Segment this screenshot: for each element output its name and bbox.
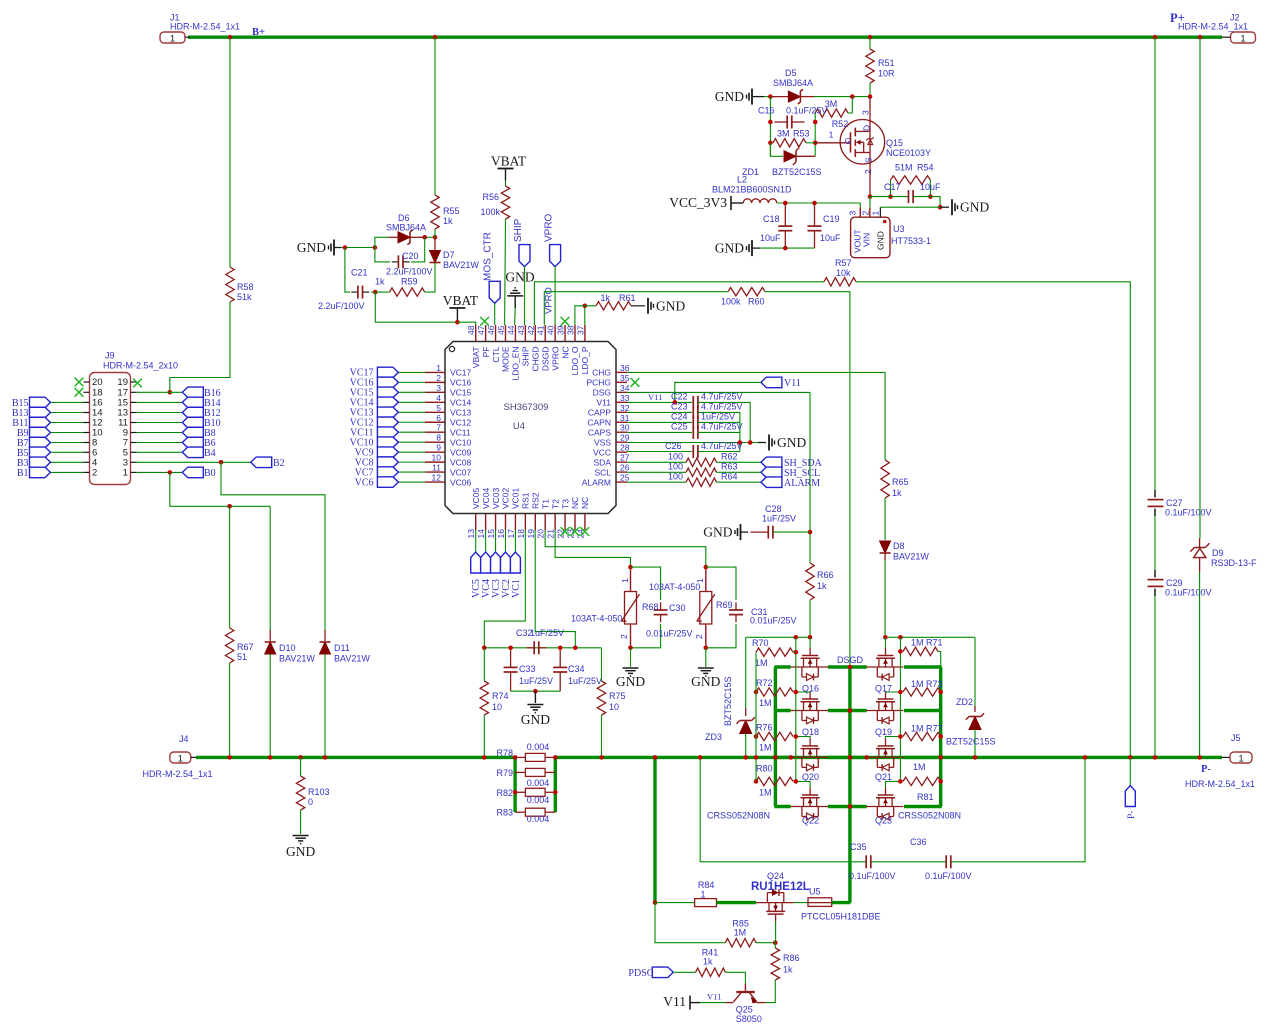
svg-text:PDSG: PDSG	[628, 968, 654, 979]
U4 pin 19 RS2	[534, 514, 536, 531]
transistor Q22	[809, 788, 811, 796]
svg-text:19: 19	[526, 529, 536, 539]
wire port B11 to J9	[51, 422, 84, 424]
wire R41 to Q25 base	[725, 972, 745, 983]
port B12	[182, 407, 203, 418]
svg-text:0.004: 0.004	[527, 814, 550, 824]
svg-text:29: 29	[620, 433, 630, 443]
svg-text:VC05: VC05	[471, 487, 481, 509]
ground at R61	[647, 298, 649, 314]
U4 pin 48 VBAT	[475, 325, 477, 342]
J9 pin 14 (left)	[84, 412, 90, 414]
svg-text:32: 32	[620, 403, 630, 413]
svg-text:G: G	[845, 136, 852, 146]
wire CHG pin36 to R65	[627, 372, 885, 460]
wire R66 to DSG gate line	[809, 600, 811, 637]
transistor Q17	[885, 648, 887, 656]
wire port VC16 to U4	[398, 381, 425, 383]
svg-text:VCC: VCC	[593, 447, 611, 457]
wire port VC17 to U4	[398, 371, 425, 373]
svg-text:7: 7	[436, 423, 441, 433]
svg-text:HT7533-1: HT7533-1	[891, 236, 931, 246]
wire D8 to CHG gate line	[884, 560, 886, 637]
svg-text:1k: 1k	[783, 965, 793, 975]
svg-text:44: 44	[506, 325, 516, 335]
capacitor C29	[1154, 570, 1156, 577]
no-connect pin 22	[561, 527, 570, 536]
svg-text:V11: V11	[663, 994, 686, 1009]
port MOS_CTR	[489, 281, 500, 303]
svg-text:PF: PF	[481, 347, 491, 358]
wire B+ to R58	[229, 37, 231, 267]
svg-text:1k: 1k	[703, 957, 713, 967]
svg-text:CRSS052N08N: CRSS052N08N	[898, 811, 961, 821]
svg-text:D7: D7	[443, 250, 455, 260]
U4 pin 43 SHIP	[524, 325, 526, 342]
left 1M common vertical to rail	[755, 652, 757, 781]
port B15	[30, 397, 51, 408]
U4 pin 30 CAPS	[616, 431, 627, 433]
wire J9 to port B8	[137, 432, 183, 434]
svg-text:1uF/25V: 1uF/25V	[568, 676, 602, 686]
svg-text:Q24: Q24	[767, 871, 784, 881]
svg-text:1: 1	[178, 753, 183, 764]
svg-text:1k: 1k	[600, 293, 610, 303]
svg-text:GND: GND	[505, 270, 534, 285]
wire B0 node down to R67	[229, 506, 231, 628]
no-connect pin 23	[571, 527, 580, 536]
connector J4	[170, 752, 191, 763]
svg-text:4.7uF/25V: 4.7uF/25V	[701, 422, 743, 432]
connector J2	[1231, 32, 1256, 43]
resistor R86 1k	[771, 948, 779, 980]
svg-text:12: 12	[432, 473, 442, 483]
svg-text:1M: 1M	[759, 743, 772, 753]
ground below C33 C34	[527, 704, 543, 706]
svg-text:R67: R67	[237, 642, 254, 652]
svg-text:2.2uF/100V: 2.2uF/100V	[386, 267, 433, 277]
svg-text:J5: J5	[1231, 733, 1241, 743]
svg-text:Q15: Q15	[886, 138, 903, 148]
port B3	[30, 457, 51, 468]
svg-text:37: 37	[575, 325, 585, 335]
svg-text:BZT52C15S: BZT52C15S	[946, 737, 996, 747]
U4 pin 36 CHG	[616, 371, 627, 373]
port ALARM	[761, 477, 782, 488]
svg-text:10: 10	[492, 702, 502, 712]
svg-text:VC10: VC10	[450, 437, 472, 447]
svg-text:R69: R69	[716, 600, 733, 610]
svg-text:15: 15	[486, 529, 496, 539]
svg-text:U3: U3	[893, 224, 905, 234]
port B0	[182, 467, 203, 478]
svg-text:R64: R64	[721, 472, 738, 482]
svg-text:11: 11	[432, 463, 441, 473]
svg-text:35: 35	[620, 373, 630, 383]
wire R58 to J9 pin17	[170, 302, 230, 392]
no-connect J9 pin 20	[75, 378, 84, 387]
svg-text:R75: R75	[609, 691, 626, 701]
svg-text:VC01: VC01	[511, 487, 521, 509]
svg-text:R73: R73	[926, 679, 943, 689]
wire RS2 pin19 to sense right	[535, 530, 575, 648]
J9 pin 9 (right)	[131, 432, 137, 434]
svg-text:D11: D11	[334, 643, 350, 653]
svg-text:SH367309: SH367309	[504, 402, 549, 413]
wire R85 to gate node	[756, 942, 775, 944]
wire right vertical	[814, 113, 816, 156]
left gate line DSG	[746, 636, 810, 638]
svg-text:10: 10	[432, 453, 442, 463]
svg-text:T2: T2	[550, 499, 560, 509]
svg-text:DSG: DSG	[593, 388, 611, 398]
diode D11 BAV21W	[324, 630, 326, 641]
svg-text:GND: GND	[960, 200, 989, 215]
svg-text:1M: 1M	[911, 724, 924, 734]
svg-text:R68: R68	[642, 602, 659, 612]
svg-text:21: 21	[546, 529, 556, 539]
svg-text:R76: R76	[756, 723, 773, 733]
port SH_SCL	[761, 467, 782, 478]
svg-text:0.1uF/100V: 0.1uF/100V	[1165, 508, 1212, 518]
svg-text:1M: 1M	[755, 658, 768, 668]
svg-text:2: 2	[860, 211, 870, 216]
wire port B5 to J9	[51, 451, 84, 453]
svg-text:R56: R56	[482, 192, 499, 202]
svg-text:MODE: MODE	[501, 346, 511, 372]
svg-text:BAV21W: BAV21W	[334, 654, 370, 664]
svg-text:R66: R66	[817, 570, 834, 580]
wire U4 pin 15 to port VC3	[495, 530, 497, 552]
capacitor C35	[865, 855, 867, 868]
svg-text:CAPP: CAPP	[588, 407, 611, 417]
U4 pin 38 LDO_O	[574, 325, 576, 342]
resistor R76 1M	[756, 732, 793, 740]
capacitor C30	[631, 567, 661, 600]
transistor Q15 NCE0103Y	[840, 120, 885, 165]
svg-text:1M: 1M	[911, 679, 924, 689]
U4 pin 44 LDO_EN	[514, 325, 516, 342]
svg-text:R82: R82	[496, 788, 513, 798]
wire PDSG to R41	[673, 971, 695, 973]
U4 pin 15 VC03	[495, 514, 497, 531]
svg-text:SMBJ64A: SMBJ64A	[773, 78, 813, 88]
diode D5 SMBJ64A	[768, 94, 773, 99]
wire Q15 source to VIN	[869, 197, 871, 208]
svg-text:20: 20	[536, 529, 546, 539]
port B11	[30, 417, 51, 428]
svg-text:GND: GND	[876, 231, 886, 250]
U4 pin 29 VSS	[616, 441, 627, 443]
svg-text:GND: GND	[521, 712, 550, 727]
left source rail thick	[774, 667, 777, 807]
svg-text:S8050: S8050	[736, 1014, 762, 1024]
svg-text:1M: 1M	[734, 928, 747, 938]
port VC12	[377, 417, 398, 428]
fuse U5 PTCCL05H181DBE	[808, 898, 832, 907]
svg-text:Q23: Q23	[875, 816, 892, 826]
ground below R69	[704, 646, 709, 651]
svg-text:C19: C19	[823, 214, 840, 224]
port VC5	[471, 552, 481, 573]
svg-text:VC02: VC02	[501, 487, 511, 509]
no-connect pin 35	[631, 378, 640, 387]
capacitor C21	[351, 291, 357, 293]
U4 pin 6 VC12	[425, 421, 445, 423]
port VC4	[481, 552, 491, 573]
port VC9	[377, 447, 398, 458]
no-connect J9 pin 18	[75, 388, 84, 397]
svg-text:26: 26	[620, 463, 630, 473]
wire port VC12 to U4	[398, 421, 425, 423]
svg-text:V11: V11	[648, 392, 662, 402]
wire port VC7 to U4	[398, 471, 425, 473]
svg-text:SDA: SDA	[594, 457, 612, 467]
wire Q24 to U5	[794, 902, 808, 904]
wire left vertical D5 node	[769, 97, 771, 157]
wire B2 net down to D11	[221, 462, 325, 630]
wire port B13 to J9	[51, 412, 84, 414]
resistor R74	[483, 648, 485, 681]
wire port B15 to J9	[51, 401, 84, 403]
svg-text:P-: P-	[1127, 811, 1137, 819]
svg-text:VC12: VC12	[450, 417, 472, 427]
svg-text:PCHG: PCHG	[586, 378, 611, 388]
svg-text:10uF: 10uF	[920, 182, 941, 192]
svg-text:0.01uF/25V: 0.01uF/25V	[750, 616, 797, 626]
wire CHGD pin42 to R57	[534, 282, 824, 325]
svg-text:C17: C17	[884, 182, 901, 192]
svg-text:VC6: VC6	[355, 477, 374, 488]
wire VBAT to U4 pin 48	[457, 322, 475, 325]
svg-text:3M: 3M	[777, 129, 790, 139]
svg-text:D: D	[862, 125, 872, 131]
svg-text:D9: D9	[1212, 548, 1224, 558]
svg-text:R103: R103	[308, 787, 330, 797]
wire R64 to port ALARM	[717, 481, 761, 483]
svg-text:1M: 1M	[911, 638, 924, 648]
svg-text:39: 39	[556, 325, 566, 335]
svg-text:Q20: Q20	[802, 772, 819, 782]
wire R63 to port SH_SCL	[717, 471, 761, 473]
wire C36 up to bus	[951, 757, 1085, 861]
svg-text:B2: B2	[273, 458, 285, 469]
capacitor C36	[945, 855, 947, 868]
thick row stubs	[774, 756, 790, 759]
wire port VC6 to U4	[398, 481, 425, 483]
wire C21 node to VBAT rail	[375, 292, 457, 322]
svg-text:VC03: VC03	[491, 487, 501, 509]
wire U3 GND to ground	[880, 206, 940, 208]
resistor R82 0.004	[515, 791, 525, 793]
U4 pin 45 MODE	[504, 325, 506, 342]
ground at VSS	[758, 442, 766, 444]
svg-text:VPRO: VPRO	[544, 287, 555, 314]
svg-text:4: 4	[436, 393, 441, 403]
resistor R52 3M	[851, 97, 853, 113]
resistor R78 0.004	[515, 756, 525, 758]
transistor Q25 S8050	[744, 983, 746, 991]
wire GND to C21/D6 node	[341, 247, 375, 249]
resistor R57	[824, 278, 856, 286]
svg-text:1: 1	[829, 130, 834, 140]
svg-text:C30: C30	[669, 603, 686, 613]
svg-text:C16: C16	[758, 106, 775, 116]
wire port B1 to J9	[51, 471, 84, 473]
regulator U3 HT7533-1	[851, 217, 890, 258]
svg-text:C21: C21	[351, 268, 368, 278]
svg-text:HDR-M-2.54_1x1: HDR-M-2.54_1x1	[143, 769, 213, 779]
wire port VC9 to U4	[398, 451, 425, 453]
port VC11	[377, 427, 398, 438]
svg-text:R61: R61	[619, 293, 636, 303]
svg-text:1k: 1k	[817, 581, 827, 591]
diode D8 BAV21W	[880, 541, 891, 553]
resistor R80 1M	[756, 777, 793, 785]
capacitor C18	[784, 203, 786, 226]
port B1	[30, 467, 51, 478]
port VC6	[377, 477, 398, 488]
wire pin 34 DSG to R66 column	[627, 391, 810, 393]
J9 pin 19 (right)	[131, 381, 137, 383]
port VC17	[377, 367, 398, 378]
transistor Q18	[809, 692, 811, 700]
svg-text:CAPN: CAPN	[587, 417, 611, 427]
wire P+ to D9	[1199, 37, 1201, 538]
left gate bus vertical	[795, 637, 797, 781]
wire Q24 gate down	[775, 922, 777, 943]
svg-text:CHGD: CHGD	[530, 347, 540, 372]
U4 pin 31 CAPN	[616, 421, 627, 423]
gate stub Q16	[809, 637, 811, 648]
resistor R103	[300, 757, 302, 776]
resistor R66	[806, 563, 814, 600]
port VC13	[377, 407, 398, 418]
svg-text:D5: D5	[785, 68, 797, 78]
wire port B7 to J9	[51, 442, 84, 444]
power port VBAT above R56	[498, 168, 514, 170]
svg-text:1: 1	[123, 468, 128, 479]
resistor R53 3M	[773, 139, 806, 147]
resistor R71 1M	[903, 647, 938, 655]
U4 pin 11 VC07	[425, 471, 445, 473]
svg-text:0.1uF/100V: 0.1uF/100V	[849, 871, 896, 881]
svg-text:RS3D-13-F: RS3D-13-F	[1211, 558, 1257, 568]
svg-text:C26: C26	[665, 441, 682, 451]
J9 pin 5 (right)	[131, 451, 137, 453]
svg-text:R72: R72	[756, 678, 773, 688]
svg-text:Q18: Q18	[802, 727, 819, 737]
junction dot P- column at rail	[1128, 755, 1133, 760]
capacitor C26 on VCC pin 28	[627, 451, 692, 453]
svg-text:V11: V11	[784, 378, 801, 389]
svg-text:VC09: VC09	[450, 447, 472, 457]
svg-text:C20: C20	[402, 251, 419, 261]
U4 pin 25 ALARM	[616, 481, 627, 483]
wire B0 node down to D10	[269, 506, 271, 630]
svg-text:BLM21BB600SN1D: BLM21BB600SN1D	[712, 185, 792, 195]
svg-text:1uF/25V: 1uF/25V	[701, 412, 735, 422]
svg-text:1M: 1M	[759, 788, 772, 798]
wire R57 to P- column	[856, 282, 1130, 758]
resistor R70 1M	[756, 648, 793, 656]
U4 pin 5 VC13	[425, 411, 445, 413]
resistor R77 1M	[903, 732, 941, 740]
J9 pin 16 (left)	[84, 401, 90, 403]
svg-text:R57: R57	[835, 258, 852, 268]
svg-text:43: 43	[516, 325, 526, 335]
svg-text:L2: L2	[737, 175, 747, 185]
svg-text:VC11: VC11	[450, 427, 471, 437]
svg-text:40: 40	[546, 325, 556, 335]
U4 pin 23 NC	[574, 514, 576, 531]
svg-text:2: 2	[694, 634, 704, 639]
resistor R84 1	[695, 899, 717, 907]
port B9	[30, 427, 51, 438]
wire B+ top rail	[188, 36, 1222, 39]
svg-text:51M: 51M	[895, 163, 913, 173]
svg-text:VBAT: VBAT	[491, 154, 527, 169]
svg-text:BAV21W: BAV21W	[893, 552, 929, 562]
svg-text:U4: U4	[513, 421, 525, 432]
svg-text:100: 100	[668, 462, 683, 472]
U4 pin 13 VC05	[475, 514, 477, 531]
J9 pin 6 (left)	[84, 451, 90, 453]
svg-text:GND: GND	[715, 241, 744, 256]
wire U4 pin 14 to port VC4	[485, 530, 487, 552]
wire C33 C34 to GND	[511, 690, 561, 692]
svg-text:VC15: VC15	[450, 388, 472, 398]
svg-text:VC06: VC06	[450, 477, 472, 487]
wire T2 pin21 to thermistor R68	[555, 530, 630, 567]
resistor R72 1M	[756, 688, 793, 696]
svg-text:HDR-M-2.54_1x1: HDR-M-2.54_1x1	[1178, 22, 1248, 32]
svg-text:NC: NC	[580, 497, 590, 509]
wire U4 pin 16 to port VC2	[504, 530, 506, 552]
center rail DSGD thick	[848, 667, 851, 903]
port B14	[182, 397, 203, 408]
svg-text:42: 42	[526, 325, 536, 335]
wire pin 31 CAPN / C24	[627, 421, 692, 423]
U4 pin 20 T1	[544, 514, 546, 531]
svg-text:ALARM: ALARM	[582, 477, 611, 487]
ground at D6	[333, 240, 335, 256]
svg-text:R59: R59	[401, 277, 418, 287]
svg-text:RS2: RS2	[530, 492, 540, 509]
svg-text:13: 13	[466, 529, 476, 539]
svg-text:B4: B4	[204, 448, 216, 459]
svg-text:V11: V11	[707, 992, 721, 1002]
wire VPRO to pin 40	[554, 267, 556, 325]
resistor R73 1M	[903, 688, 941, 696]
svg-text:0.004: 0.004	[527, 778, 550, 788]
wire port VC8 to U4	[398, 461, 425, 463]
right rail thick	[939, 667, 942, 807]
svg-text:47: 47	[476, 325, 486, 335]
port VC10	[377, 437, 398, 448]
svg-text:VBAT: VBAT	[471, 347, 481, 369]
svg-text:VC04: VC04	[481, 487, 491, 509]
svg-text:VC08: VC08	[450, 457, 472, 467]
svg-text:1: 1	[870, 211, 880, 216]
svg-text:Q22: Q22	[802, 816, 819, 826]
wire R56 to U4 pin 45 MODE	[504, 219, 507, 325]
svg-text:R74: R74	[492, 691, 509, 701]
port VC2	[500, 552, 510, 573]
resistor R59	[375, 291, 389, 293]
wire port B9 to J9	[51, 432, 84, 434]
gate taps right column	[886, 691, 901, 694]
